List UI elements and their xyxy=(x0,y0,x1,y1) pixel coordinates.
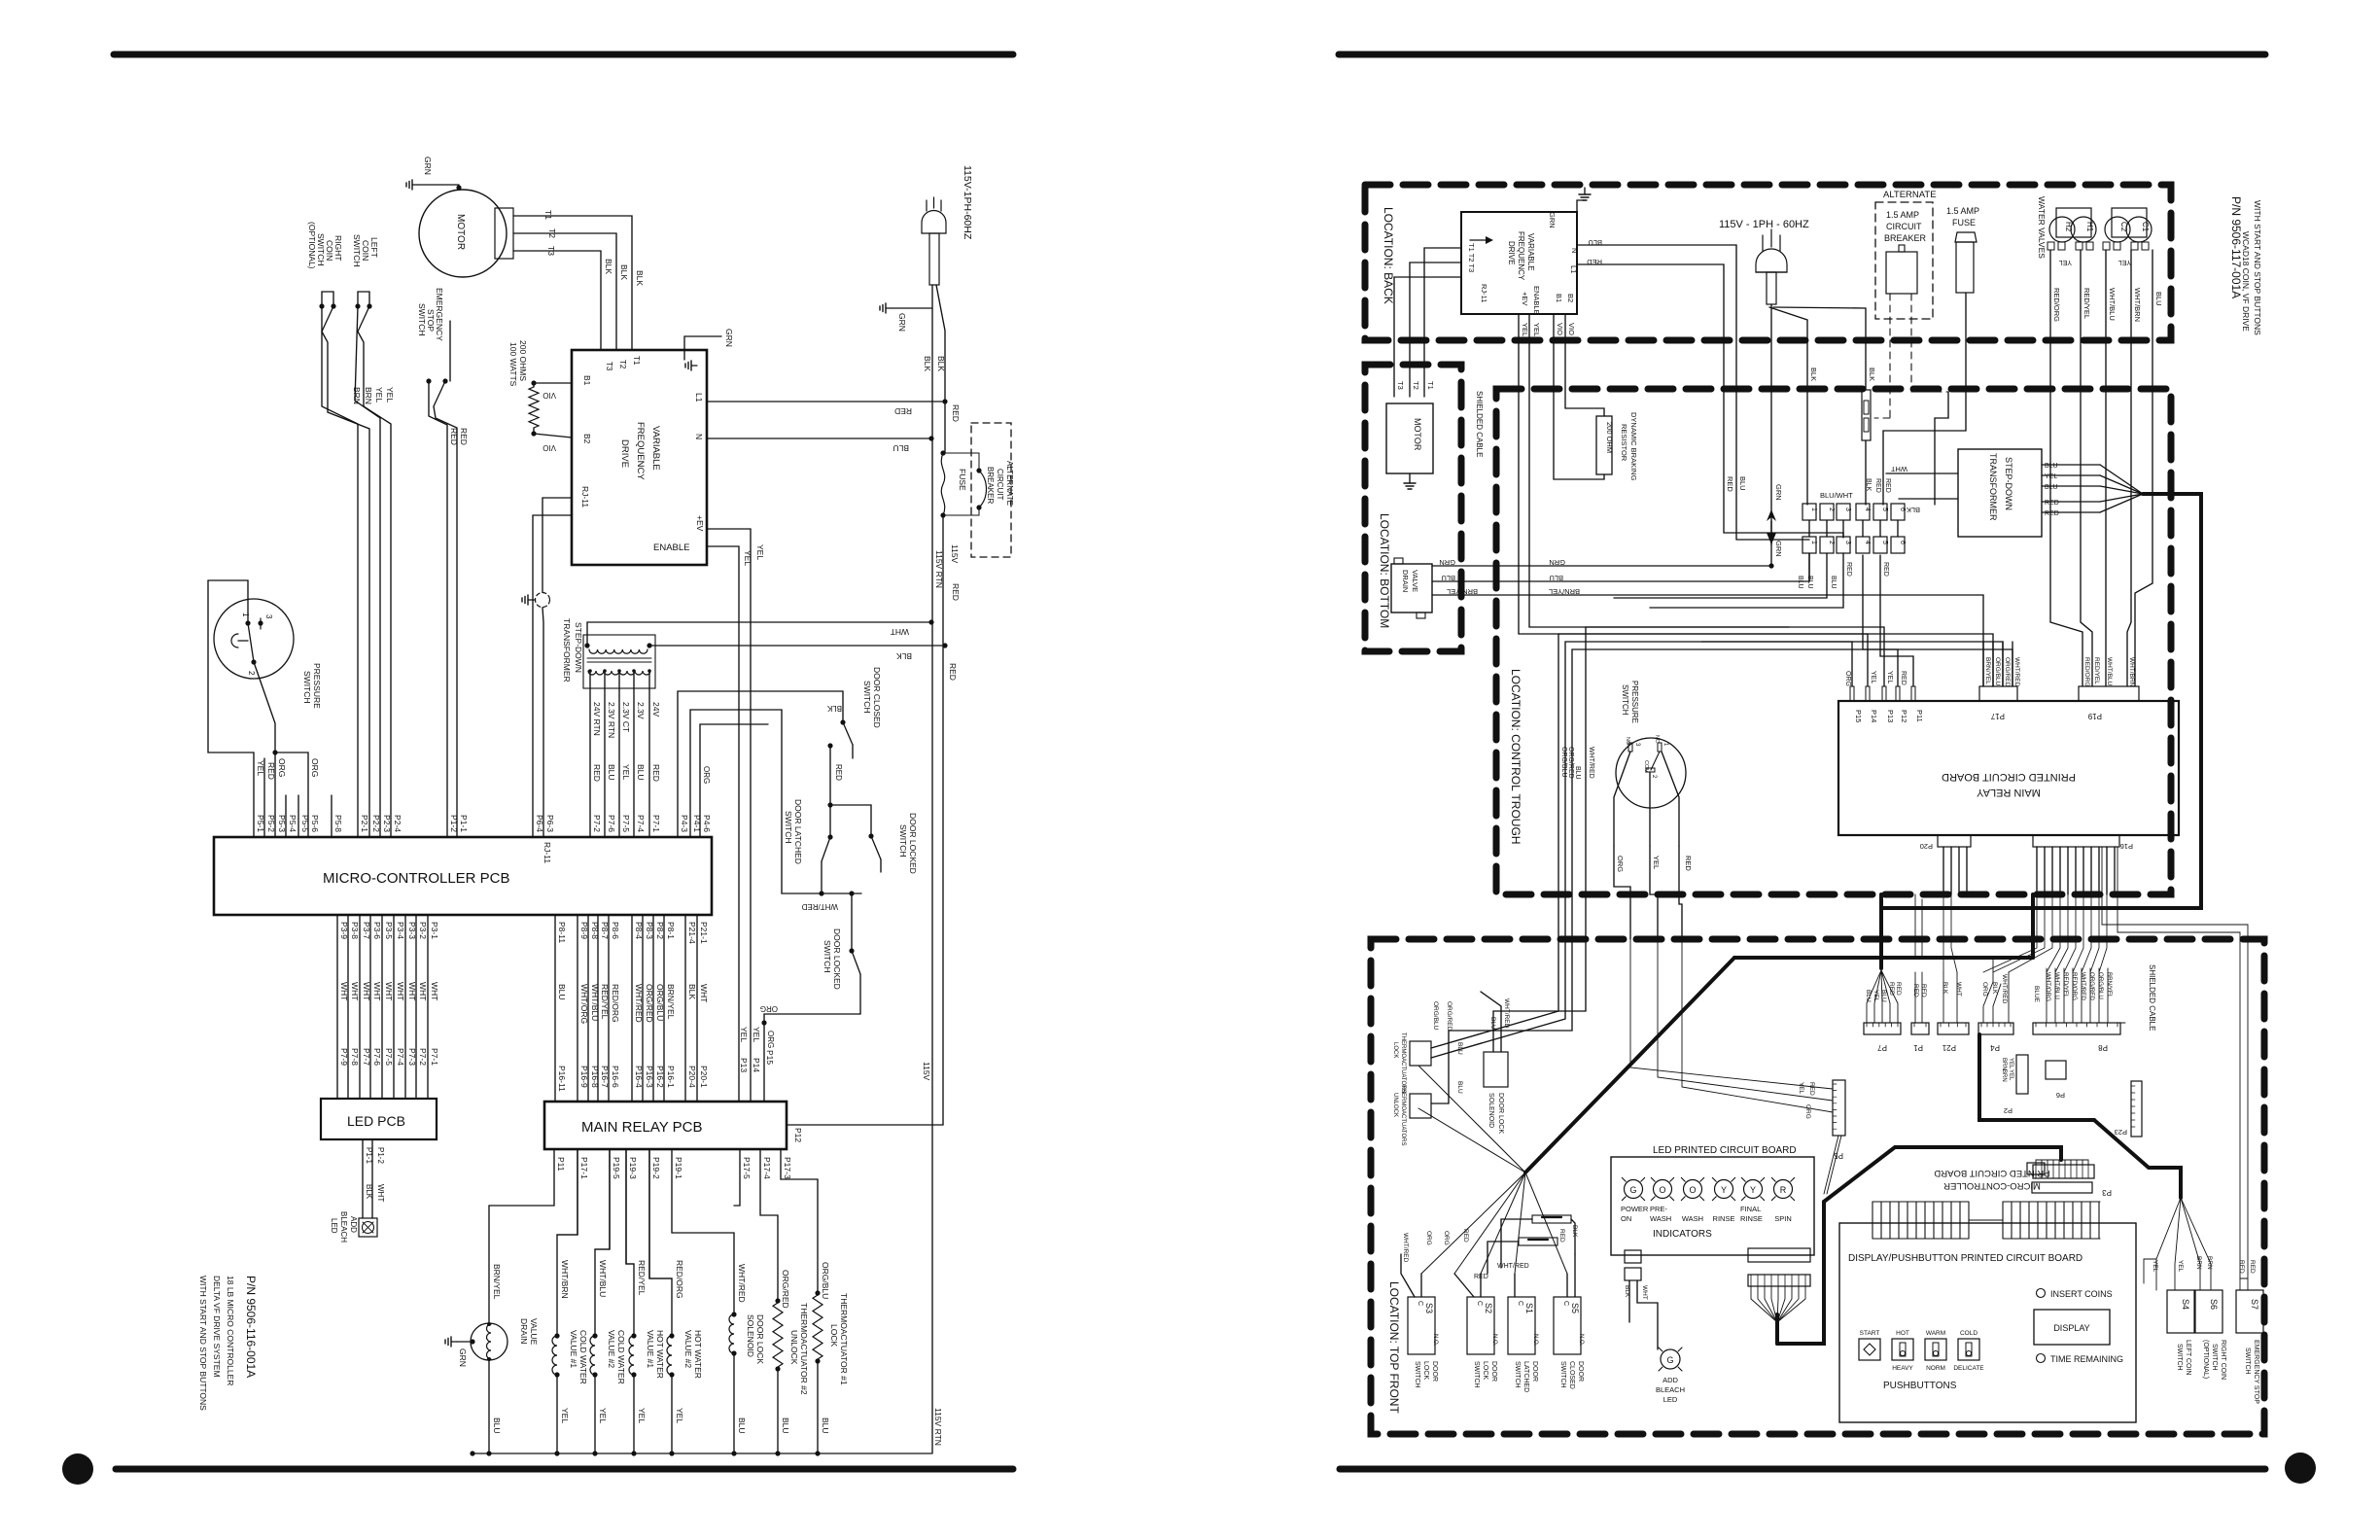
svg-text:DRIVE: DRIVE xyxy=(619,439,630,468)
svg-text:RED: RED xyxy=(894,406,912,416)
wires +EV ENABLE right xyxy=(1519,314,1541,634)
svg-text:RED/ORG: RED/ORG xyxy=(675,1260,684,1299)
location top front box xyxy=(1371,939,2264,1434)
svg-text:HOT WATER: HOT WATER xyxy=(655,1330,665,1379)
svg-text:N.O.: N.O. xyxy=(1532,1334,1538,1347)
transformer secondary wires xyxy=(588,669,661,837)
wire plug BLK B xyxy=(1773,307,1876,390)
svg-text:RED: RED xyxy=(592,764,602,782)
svg-text:200 OHM: 200 OHM xyxy=(1605,422,1614,453)
svg-text:RJ-11: RJ-11 xyxy=(542,842,552,863)
label water valves xyxy=(2037,196,2047,259)
svg-text:P21-1: P21-1 xyxy=(699,922,709,944)
svg-text:BLUE: BLUE xyxy=(2033,986,2040,1003)
svg-text:BRN: BRN xyxy=(2001,1058,2007,1070)
wire motor T3 xyxy=(513,246,601,350)
svg-text:ENABLE: ENABLE xyxy=(653,542,690,553)
svg-text:INDICATORS: INDICATORS xyxy=(1653,1229,1712,1240)
svg-text:BLK: BLK xyxy=(936,356,946,371)
svg-text:115V RTN: 115V RTN xyxy=(934,550,944,588)
svg-text:START: START xyxy=(1860,1330,1880,1337)
svg-text:P1-1: P1-1 xyxy=(365,1147,373,1164)
svg-text:P4-6: P4-6 xyxy=(702,815,712,832)
svg-text:RED: RED xyxy=(2045,500,2059,507)
transformer output wires xyxy=(2042,463,2143,517)
svg-text:WHT/RED: WHT/RED xyxy=(1503,998,1510,1029)
svg-text:P1: P1 xyxy=(1913,1043,1923,1052)
fuse 1.5A F3 xyxy=(1883,206,1979,505)
wire motor T1 xyxy=(513,210,632,350)
door switch wires xyxy=(1401,1225,1578,1297)
wire motor T2 xyxy=(513,228,616,350)
label BLK wires xyxy=(604,259,645,286)
svg-text:TIME REMAINING: TIME REMAINING xyxy=(2050,1354,2123,1364)
ground at VFD right xyxy=(1548,188,1591,228)
svg-text:YEL: YEL xyxy=(621,764,631,780)
wire WHT/RED down xyxy=(1586,627,1789,939)
svg-text:HEAVY: HEAVY xyxy=(1892,1365,1913,1372)
svg-text:BLU/WHT: BLU/WHT xyxy=(1820,491,1853,500)
svg-text:SWITCH: SWITCH xyxy=(302,671,312,704)
labels coin wires xyxy=(352,387,395,404)
svg-text:COLD WATER: COLD WATER xyxy=(578,1330,588,1384)
svg-text:LED PRINTED CIRCUIT BOARD: LED PRINTED CIRCUIT BOARD xyxy=(1653,1145,1797,1156)
svg-text:P8: P8 xyxy=(2098,1043,2108,1052)
svg-text:WHT/BRN: WHT/BRN xyxy=(2128,657,2135,687)
svg-text:H2: H2 xyxy=(2064,222,2073,232)
svg-text:P1-1: P1-1 xyxy=(459,815,469,832)
power plug P2 (right page) xyxy=(1756,229,1787,304)
emergency stop switch S-ES xyxy=(417,288,457,837)
svg-text:115V: 115V xyxy=(922,1062,931,1081)
svg-text:BLU: BLU xyxy=(1456,1042,1463,1055)
svg-text:BLU: BLU xyxy=(1549,574,1563,582)
svg-text:C: C xyxy=(1517,1301,1523,1306)
wire 115V neutral upper xyxy=(936,285,945,402)
wire plug BLK A xyxy=(1769,307,1818,505)
svg-text:WHT: WHT xyxy=(699,984,709,1002)
svg-text:RED: RED xyxy=(1474,1274,1488,1280)
svg-text:C: C xyxy=(1476,1301,1483,1306)
connector P17 xyxy=(1979,642,2020,720)
svg-text:YEL: YEL xyxy=(2059,259,2072,265)
door switch S2 xyxy=(1467,1297,1497,1388)
svg-text:P6-3: P6-3 xyxy=(545,815,555,832)
wire P12 xyxy=(787,1125,943,1142)
svg-text:LATCHED: LATCHED xyxy=(1522,1361,1529,1392)
svg-text:DYNAMIC BRAKING: DYNAMIC BRAKING xyxy=(1629,412,1638,481)
svg-text:RED: RED xyxy=(2045,510,2059,517)
svg-text:BRN/YEL: BRN/YEL xyxy=(666,984,676,1020)
ground at motor xyxy=(406,157,462,191)
svg-text:1: 1 xyxy=(1810,507,1817,511)
svg-text:WHT: WHT xyxy=(376,1184,385,1202)
svg-text:P2: P2 xyxy=(2004,1106,2012,1115)
svg-text:L1: L1 xyxy=(694,393,704,402)
svg-text:RED: RED xyxy=(1462,1229,1469,1242)
svg-text:GRN: GRN xyxy=(1439,558,1455,567)
svg-text:FREQUENCY: FREQUENCY xyxy=(1517,231,1525,281)
svg-text:N.O.: N.O. xyxy=(1578,1334,1584,1347)
svg-text:WHT/RED: WHT/RED xyxy=(2001,974,2008,1004)
svg-text:RED: RED xyxy=(1587,258,1602,266)
thermoactuator TA1 xyxy=(781,1149,849,1453)
svg-text:YEL: YEL xyxy=(2152,1260,2158,1273)
location bottom box xyxy=(1365,365,1461,651)
connector P20 xyxy=(1920,835,1971,894)
svg-text:RED: RED xyxy=(834,764,843,781)
pressure switch wiring xyxy=(208,580,308,837)
svg-text:PRESSURE: PRESSURE xyxy=(1630,681,1639,723)
labels BLK BLK cord xyxy=(923,356,946,371)
svg-text:RESISTOR: RESISTOR xyxy=(1620,424,1628,462)
svg-text:WHT/BRN: WHT/BRN xyxy=(2133,288,2142,322)
wires to S7 xyxy=(2102,847,2256,1290)
ground at cord xyxy=(880,303,932,332)
svg-text:ORG/RED: ORG/RED xyxy=(781,1270,790,1309)
svg-text:ORG: ORG xyxy=(702,766,711,784)
wire 115V hot xyxy=(931,285,933,1453)
svg-text:LOCK: LOCK xyxy=(1392,1042,1398,1058)
svg-text:INSERT COINS: INSERT COINS xyxy=(2050,1289,2113,1299)
svg-text:WHT/BLU: WHT/BLU xyxy=(598,1260,608,1297)
labels P13 P14 P15 xyxy=(739,1027,775,1072)
wire plug GRN xyxy=(1767,304,1783,566)
LED PCB U3 xyxy=(321,1099,437,1139)
svg-text:C: C xyxy=(1562,1301,1569,1306)
micro PCB stub pins xyxy=(286,795,332,837)
svg-text:200 OHMS: 200 OHMS xyxy=(518,340,528,381)
svg-text:H1: H1 xyxy=(2085,222,2094,232)
svg-text:P15: P15 xyxy=(1854,710,1863,722)
svg-text:BLU: BLU xyxy=(2154,292,2163,306)
door switch S5 xyxy=(1554,1297,1584,1389)
svg-text:WHT/RED: WHT/RED xyxy=(2080,972,2086,1000)
labels 115V RTN xyxy=(934,544,961,601)
step-down transformer T2 (right) xyxy=(1886,449,2042,537)
location back box xyxy=(1365,185,2171,340)
svg-text:ORG: ORG xyxy=(1981,982,1988,997)
svg-text:P17-5: P17-5 xyxy=(742,1157,752,1179)
arrow shield VFD xyxy=(1470,236,1493,244)
svg-text:MICRO-CONTROLLER: MICRO-CONTROLLER xyxy=(1943,1180,2041,1191)
svg-text:TRANSFORMER: TRANSFORMER xyxy=(562,618,572,682)
svg-text:WASH: WASH xyxy=(1682,1214,1703,1223)
svg-text:P12: P12 xyxy=(1900,710,1908,722)
svg-text:N: N xyxy=(694,434,704,439)
svg-text:P17-4: P17-4 xyxy=(762,1157,772,1179)
svg-text:ENABLE: ENABLE xyxy=(1532,286,1541,315)
svg-text:24V: 24V xyxy=(651,702,661,717)
svg-text:3: 3 xyxy=(1844,541,1851,544)
svg-text:GRN: GRN xyxy=(897,313,907,332)
door switch wire fan xyxy=(1418,1066,1567,1274)
svg-text:YEL: YEL xyxy=(1521,323,1529,336)
svg-text:ORG/RED: ORG/RED xyxy=(1446,1001,1452,1032)
wire drain BLU xyxy=(1432,553,1809,582)
connector P3 with fan xyxy=(2032,1160,2112,1197)
inline fuse holder F2 xyxy=(1862,390,1871,505)
svg-text:O: O xyxy=(1689,1185,1696,1195)
svg-text:WHT/RED: WHT/RED xyxy=(737,1264,747,1303)
115V RTN bus xyxy=(470,1408,943,1456)
svg-text:CIRCUIT: CIRCUIT xyxy=(1886,222,1922,231)
svg-text:ORG/RED: ORG/RED xyxy=(2004,657,2011,687)
svg-text:ORG/BLU: ORG/BLU xyxy=(1432,1001,1439,1031)
svg-text:BLK: BLK xyxy=(1942,982,1948,995)
connector P16 xyxy=(2033,835,2133,894)
svg-text:BLEACH: BLEACH xyxy=(339,1211,348,1242)
svg-text:ORG/BLU: ORG/BLU xyxy=(2097,972,2104,999)
svg-text:LOCK: LOCK xyxy=(1422,1361,1429,1380)
svg-text:BREAKER: BREAKER xyxy=(986,467,995,504)
svg-text:LOCK: LOCK xyxy=(1482,1361,1488,1380)
svg-text:BRN: BRN xyxy=(364,387,373,404)
svg-text:UNLOCK: UNLOCK xyxy=(1392,1093,1398,1117)
svg-text:3: 3 xyxy=(1844,507,1851,511)
svg-text:DELTA VF DRIVE SYSTEM: DELTA VF DRIVE SYSTEM xyxy=(212,1276,222,1378)
svg-text:RED/ORG: RED/ORG xyxy=(2071,972,2078,1000)
svg-text:5: 5 xyxy=(1881,541,1888,544)
hot water valves H2 H1 xyxy=(2047,208,2096,265)
svg-text:YEL: YEL xyxy=(1652,856,1661,869)
svg-text:RED: RED xyxy=(1808,1082,1815,1096)
thermoactuator TA2 xyxy=(760,1149,809,1453)
svg-text:ORG: ORG xyxy=(1844,671,1851,686)
RJ-11 shield and lines xyxy=(522,498,572,837)
svg-text:BRN/YEL: BRN/YEL xyxy=(2106,972,2113,998)
svg-text:DOOR LOCK: DOOR LOCK xyxy=(1497,1093,1504,1134)
svg-text:MOTOR: MOTOR xyxy=(1413,418,1422,451)
svg-text:P5: P5 xyxy=(1834,1151,1843,1160)
svg-text:WHT/RED: WHT/RED xyxy=(1588,747,1594,779)
svg-text:THERMOACTUATORS: THERMOACTUATORS xyxy=(1400,1085,1406,1145)
svg-text:ORG/RED: ORG/RED xyxy=(2088,972,2095,1000)
svg-text:P16-1: P16-1 xyxy=(666,1066,676,1088)
svg-text:YEL: YEL xyxy=(752,1027,761,1042)
svg-text:WHT: WHT xyxy=(350,982,360,1000)
svg-text:BLU: BLU xyxy=(1456,1081,1463,1094)
svg-text:SWITCH: SWITCH xyxy=(352,234,362,267)
svg-text:PRINTED CIRCUIT BOARD: PRINTED CIRCUIT BOARD xyxy=(1942,771,2076,783)
svg-text:WHT: WHT xyxy=(396,982,405,1000)
svg-text:P3-2: P3-2 xyxy=(418,922,428,939)
svg-text:NC: NC xyxy=(1654,735,1660,743)
add bleach LED right page xyxy=(1624,1250,1685,1404)
svg-text:ORG: ORG xyxy=(1616,856,1625,872)
door switch S3 xyxy=(1408,1297,1438,1388)
svg-text:P19-5: P19-5 xyxy=(612,1157,621,1179)
svg-text:SWITCH: SWITCH xyxy=(784,811,793,844)
braking resistor R1 xyxy=(508,340,572,452)
svg-text:SWITCH: SWITCH xyxy=(2176,1344,2183,1371)
svg-text:2.3V: 2.3V xyxy=(636,702,646,719)
step-down transformer T1 (left) xyxy=(562,618,655,688)
fuse F1 xyxy=(940,402,967,1125)
svg-text:RED: RED xyxy=(459,428,469,445)
svg-text:2.3V RTN: 2.3V RTN xyxy=(607,702,616,738)
svg-text:SWITCH: SWITCH xyxy=(1473,1361,1480,1388)
label 115V xyxy=(922,1062,931,1081)
thick bus micro pcb xyxy=(1777,1147,2061,1344)
svg-text:Y: Y xyxy=(1750,1185,1756,1195)
svg-text:4: 4 xyxy=(1864,507,1871,511)
svg-text:115V-1PH-60HZ: 115V-1PH-60HZ xyxy=(962,165,973,240)
svg-text:P23: P23 xyxy=(2115,1128,2127,1137)
svg-text:P2-4: P2-4 xyxy=(393,815,402,832)
svg-text:SPIN: SPIN xyxy=(1774,1214,1792,1223)
svg-text:SWITCH: SWITCH xyxy=(1514,1361,1521,1388)
door switch S1 xyxy=(1508,1297,1538,1392)
svg-text:RED: RED xyxy=(948,663,958,681)
svg-text:T2: T2 xyxy=(618,360,627,369)
svg-text:YEL: YEL xyxy=(1798,1082,1804,1095)
svg-text:1.5 AMP: 1.5 AMP xyxy=(1946,206,1979,216)
svg-text:P4: P4 xyxy=(1990,1043,2000,1052)
LED board connector and fan xyxy=(1748,1248,1810,1344)
pressure switch PS2 (right) xyxy=(1614,681,1686,846)
svg-text:GRN: GRN xyxy=(1774,484,1783,501)
svg-text:ORG: ORG xyxy=(766,1031,775,1048)
svg-text:RED: RED xyxy=(1874,478,1881,493)
svg-text:P21: P21 xyxy=(1942,1043,1956,1052)
svg-text:DISPLAY/PUSHBUTTON PRINTED C: DISPLAY/PUSHBUTTON PRINTED CIRCUIT BOARD xyxy=(1848,1253,2082,1264)
svg-text:ON: ON xyxy=(1621,1214,1631,1223)
svg-text:PRESSURE: PRESSURE xyxy=(312,663,322,709)
svg-text:VALUE #2: VALUE #2 xyxy=(607,1330,616,1368)
svg-text:BRN: BRN xyxy=(2195,1256,2202,1270)
door closed switch S-DC xyxy=(678,667,882,837)
svg-text:SWITCH: SWITCH xyxy=(898,824,908,857)
terminal strip TB1 xyxy=(1802,504,1906,553)
svg-text:P/N 9506-116-001A: P/N 9506-116-001A xyxy=(244,1276,258,1378)
svg-text:P7-4: P7-4 xyxy=(636,815,646,832)
svg-text:YEL: YEL xyxy=(743,550,752,566)
svg-text:SWITCH: SWITCH xyxy=(1414,1361,1420,1388)
inline splices xyxy=(1487,1215,1575,1274)
svg-text:THERMOACTUATOR #1: THERMOACTUATOR #1 xyxy=(839,1293,849,1385)
wires micro to main relay PCB xyxy=(555,915,709,1102)
svg-text:S6: S6 xyxy=(2209,1299,2219,1310)
svg-text:RED: RED xyxy=(1900,671,1907,685)
svg-text:GRN: GRN xyxy=(1549,558,1565,567)
svg-text:BLU: BLU xyxy=(607,764,616,781)
svg-text:RED/ORG: RED/ORG xyxy=(2052,288,2061,322)
svg-text:BLU: BLU xyxy=(1588,238,1602,247)
svg-text:THERMOACTUATOR #2: THERMOACTUATOR #2 xyxy=(799,1303,809,1395)
svg-text:HOT WATER: HOT WATER xyxy=(693,1330,703,1379)
svg-text:WHT/RED: WHT/RED xyxy=(801,902,838,911)
water valve wires to P19 xyxy=(2050,250,2142,686)
svg-text:FREQUENCY: FREQUENCY xyxy=(635,422,646,480)
svg-text:YEL: YEL xyxy=(2045,473,2057,480)
coin switches S4 S6 xyxy=(2167,1290,2226,1380)
svg-text:RINSE: RINSE xyxy=(1740,1214,1763,1223)
micro-controller PCB U2 xyxy=(214,837,712,915)
svg-text:ORG/RED: ORG/RED xyxy=(1567,747,1574,779)
svg-text:P7-2: P7-2 xyxy=(418,1048,428,1066)
svg-text:BLU: BLU xyxy=(892,443,909,453)
svg-text:RED/YEL: RED/YEL xyxy=(2082,288,2091,319)
svg-text:SWITCH: SWITCH xyxy=(862,681,872,714)
svg-text:ORG/BLU: ORG/BLU xyxy=(1560,747,1567,778)
svg-text:YEL: YEL xyxy=(2008,1069,2013,1081)
svg-text:LOCATION: CONTROL TROUGH: LOCATION: CONTROL TROUGH xyxy=(1509,669,1522,844)
svg-text:P13: P13 xyxy=(1886,710,1895,722)
svg-text:YEL: YEL xyxy=(256,760,265,776)
svg-text:RED/YEL: RED/YEL xyxy=(2093,657,2100,684)
svg-text:BLK: BLK xyxy=(1809,367,1818,381)
svg-text:BLK: BLK xyxy=(923,356,932,371)
coin switch wires xyxy=(2144,1198,2213,1290)
water valve coils LV2-LV5 xyxy=(552,1149,703,1453)
svg-text:STEP-DOWN: STEP-DOWN xyxy=(574,622,583,673)
svg-text:WHT: WHT xyxy=(1641,1285,1648,1300)
location control trough box xyxy=(1496,389,2171,894)
svg-text:5: 5 xyxy=(1881,507,1888,511)
label location bottom xyxy=(1378,513,1391,628)
svg-text:B1: B1 xyxy=(582,375,592,386)
labels pressure wires xyxy=(256,758,320,780)
main relay PCB U4 xyxy=(544,1102,787,1149)
top rule right page xyxy=(1339,52,2265,58)
svg-text:DELICATE: DELICATE xyxy=(1953,1365,1984,1372)
svg-text:GRN: GRN xyxy=(423,157,433,175)
drain valve box (right page) xyxy=(1391,558,1432,618)
svg-text:RED/ORG: RED/ORG xyxy=(2083,657,2090,686)
svg-text:BLU: BLU xyxy=(492,1417,502,1434)
door lock solenoid LV6 xyxy=(672,1149,765,1453)
svg-text:SWITCH: SWITCH xyxy=(1559,1361,1566,1388)
svg-text:YEL: YEL xyxy=(2008,1058,2013,1069)
connector P8 xyxy=(2033,968,2125,1052)
svg-text:100 WATTS: 100 WATTS xyxy=(508,342,518,387)
svg-text:RED: RED xyxy=(951,404,961,422)
svg-text:BLK: BLK xyxy=(1907,506,1920,514)
svg-text:HOT: HOT xyxy=(1896,1330,1909,1337)
svg-text:C1: C1 xyxy=(2141,222,2150,232)
svg-text:RINSE: RINSE xyxy=(1713,1214,1735,1223)
svg-text:EMERGENCY STOP: EMERGENCY STOP xyxy=(2253,1340,2259,1404)
pressure switch PS1 xyxy=(214,599,322,709)
wires LED PCB to bleach LED xyxy=(363,1139,385,1218)
left coin switch S-LC xyxy=(352,234,391,837)
svg-text:T1: T1 xyxy=(632,356,641,366)
svg-text:ORG: ORG xyxy=(760,1004,778,1013)
svg-text:RED: RED xyxy=(2249,1260,2256,1274)
svg-text:DOOR CLOSED: DOOR CLOSED xyxy=(872,667,882,728)
power cord plug P1 xyxy=(922,165,973,285)
svg-text:BLK: BLK xyxy=(635,270,645,286)
svg-text:18 LB MICRO CONTROLLER: 18 LB MICRO CONTROLLER xyxy=(226,1276,235,1385)
label location back xyxy=(1382,207,1395,304)
label top front xyxy=(1387,1281,1401,1414)
svg-text:YEL: YEL xyxy=(560,1408,570,1423)
svg-text:+EV: +EV xyxy=(1521,292,1529,305)
svg-text:RED: RED xyxy=(1884,478,1891,493)
svg-text:MICRO-CONTROLLER PCB: MICRO-CONTROLLER PCB xyxy=(323,870,510,887)
svg-text:P20-1: P20-1 xyxy=(699,1066,709,1088)
wire VFD N BLU xyxy=(707,436,934,453)
svg-text:T3: T3 xyxy=(546,246,556,256)
svg-text:BLK: BLK xyxy=(365,1184,373,1200)
wire drain BRN/YEL xyxy=(1432,587,1983,686)
svg-text:P17-3: P17-3 xyxy=(783,1157,792,1179)
svg-text:P16-6: P16-6 xyxy=(611,1066,620,1088)
svg-text:RED: RED xyxy=(951,583,961,601)
pressure switch wires to P5 xyxy=(1630,939,1833,1112)
wires P1 up xyxy=(1915,894,1922,958)
